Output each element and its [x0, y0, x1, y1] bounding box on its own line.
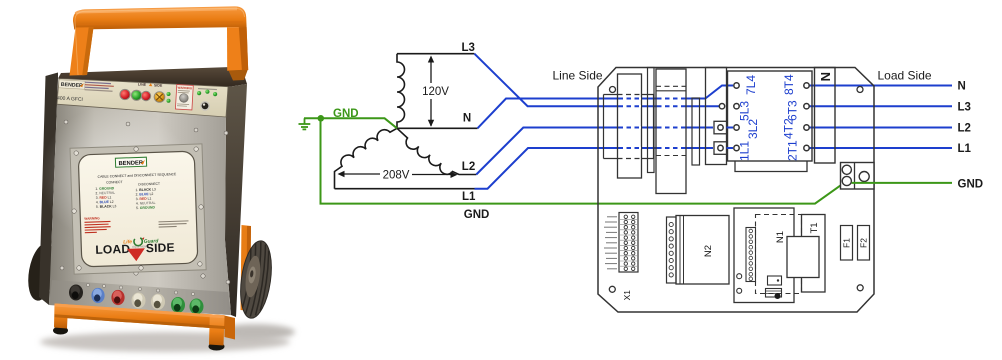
front lower dark strip [49, 280, 231, 315]
svg-text:N2: N2 [703, 245, 714, 257]
wire GND out right [852, 182, 953, 184]
wire N blue right [809, 85, 952, 87]
terminal 5L3 pre [719, 104, 724, 109]
enclosure outline [598, 68, 874, 313]
CT B inner lines [656, 85, 686, 87]
svg-text:LOAD: LOAD [95, 242, 130, 257]
N1 terminal strip [746, 228, 756, 282]
N1 dashed boundary [756, 215, 802, 294]
svg-text:5. GROUND: 5. GROUND [136, 205, 156, 210]
wire L1 blue right [809, 147, 952, 149]
terminal 8T4 [804, 83, 809, 88]
svg-text:N: N [958, 81, 966, 93]
contactor bottom tab [735, 161, 807, 172]
svg-text:SIDE: SIDE [146, 240, 175, 255]
terminal 2T1 [804, 145, 809, 150]
ground symbol [299, 118, 311, 129]
small green leds center [167, 92, 171, 96]
terminal strip X1 [619, 213, 638, 273]
left wheel [24, 241, 60, 303]
wire GND green left [304, 118, 397, 128]
hand truck right rail [241, 225, 252, 311]
label plate [78, 151, 198, 267]
svg-text:4T2: 4T2 [782, 118, 796, 139]
floor shadow [40, 332, 290, 352]
neutral block N [815, 68, 836, 164]
connector green 1 [171, 297, 185, 313]
handle [70, 6, 249, 80]
svg-text:L1: L1 [958, 143, 972, 155]
svg-text:LINE: LINE [138, 82, 147, 86]
dimension 120V [430, 58, 432, 127]
N1 side holes [737, 274, 742, 279]
svg-text:F2: F2 [859, 238, 869, 248]
N1 sub block B [766, 289, 782, 298]
steel screws top row [60, 120, 230, 284]
button gray [179, 93, 189, 103]
ground lug block [841, 163, 875, 190]
CT B window [656, 69, 686, 194]
wire N blue [478, 86, 734, 129]
wire L3 top black [397, 53, 474, 55]
connector white 2 [151, 294, 165, 310]
warning sticker [175, 85, 193, 110]
svg-text:Line Side: Line Side [553, 68, 603, 82]
hole top-left [610, 87, 616, 93]
svg-text:L3: L3 [462, 42, 475, 54]
svg-text:120V: 120V [422, 86, 449, 98]
coil W2 right diagonal [397, 128, 476, 174]
hole bottom-right [857, 285, 863, 291]
box left side [39, 73, 58, 306]
svg-text:T1: T1 [809, 222, 820, 233]
wire L3 blue [474, 54, 719, 106]
svg-text:L2: L2 [958, 123, 971, 135]
right leds [198, 88, 217, 90]
hole top-right [857, 87, 863, 93]
box front steel [49, 104, 231, 315]
CT A window [618, 74, 642, 178]
svg-text:N1: N1 [775, 231, 786, 243]
svg-text:WARNING: WARNING [84, 216, 100, 221]
svg-text:L3: L3 [958, 102, 971, 114]
svg-text:X1: X1 [622, 290, 632, 301]
terminal 6T3 [804, 104, 809, 109]
svg-text:BENDER: BENDER [118, 160, 143, 167]
terminal 5L3 [734, 104, 739, 109]
toggle switch [200, 101, 210, 111]
light red 1 [119, 89, 130, 100]
fuse F1 [841, 226, 853, 261]
contactor K1 [728, 71, 813, 161]
panel bender sticker [59, 80, 85, 89]
relay N2 body [676, 216, 729, 285]
connector black [69, 285, 83, 301]
svg-text:6T3: 6T3 [786, 100, 800, 121]
light green [131, 90, 142, 101]
wire L2 blue [476, 128, 713, 175]
label plate frame [70, 144, 206, 274]
svg-text:208V: 208V [383, 169, 410, 181]
svg-text:WARNING: WARNING [178, 86, 193, 91]
box top face [58, 67, 247, 87]
relay N2 terminal strip [667, 217, 677, 283]
terminal box 1L1 [714, 142, 727, 155]
right wheel [236, 239, 276, 320]
svg-text:BENDER: BENDER [61, 82, 83, 89]
rect small left of C [692, 98, 700, 165]
N1 sub block A [768, 276, 782, 285]
connector white 1 [132, 293, 146, 309]
svg-text:GND: GND [958, 178, 984, 190]
terminal 1L1 [734, 145, 739, 150]
node center wye [397, 127, 478, 129]
svg-text:L2: L2 [462, 161, 475, 173]
dimension 208V [344, 173, 451, 176]
node GND junction [318, 115, 325, 122]
svg-text:5. BLACK L3: 5. BLACK L3 [96, 204, 117, 209]
orange base [53, 327, 68, 335]
svg-text:DISCONNECT: DISCONNECT [138, 182, 160, 187]
transformer T1 [802, 215, 826, 293]
wire L3 blue right [809, 105, 952, 107]
svg-text:5L3: 5L3 [738, 101, 752, 121]
wire L2 blue right [809, 127, 952, 129]
terminal 4T2 [804, 125, 809, 130]
fuse F2 [858, 226, 870, 261]
relay N1 body [734, 208, 794, 303]
warning text red [84, 216, 111, 233]
svg-text:CONNECT: CONNECT [106, 180, 122, 185]
hole bottom-left [609, 286, 615, 292]
svg-text:3L2: 3L2 [746, 119, 760, 139]
panel small text lines [85, 82, 114, 92]
terminal 3L2 [734, 125, 739, 130]
connector screws row [86, 283, 194, 295]
X1 tiny wire tags [604, 217, 617, 269]
light red 2 [141, 91, 151, 101]
svg-text:GND: GND [464, 209, 490, 221]
wire L1 bottom black [335, 188, 475, 190]
terminal 7L4 [734, 83, 739, 88]
terminal box 3L2 [714, 121, 727, 134]
svg-text:N: N [463, 112, 471, 124]
svg-text:2T1: 2T1 [786, 140, 800, 161]
coil W3 vertical [397, 54, 405, 129]
light amber [154, 91, 166, 103]
connector blue [91, 288, 104, 303]
svg-text:8T4: 8T4 [782, 74, 796, 95]
svg-text:Load Side: Load Side [878, 69, 932, 83]
rect C [706, 68, 727, 165]
steel shine [40, 105, 190, 245]
coil W1 left diagonal [335, 128, 398, 188]
svg-text:L1: L1 [462, 191, 476, 203]
dashed blue segments overlay [619, 99, 686, 149]
line side mini label [138, 82, 163, 87]
wire L1 blue [475, 148, 714, 189]
connector green 2 [190, 299, 204, 315]
svg-text:1L1: 1L1 [738, 141, 752, 161]
box right side [225, 84, 247, 317]
svg-text:N: N [818, 72, 833, 81]
wire GND bottom run [321, 118, 845, 203]
control panel [57, 79, 228, 118]
svg-text:7L4: 7L4 [744, 75, 758, 95]
CT band left [604, 95, 654, 159]
bender logo plate [115, 157, 146, 167]
svg-text:SIDE: SIDE [154, 83, 163, 87]
connector red [111, 290, 124, 305]
bar between CTs [648, 68, 655, 173]
lifeguard logo [123, 237, 160, 249]
svg-text:F1: F1 [842, 238, 852, 248]
svg-text:GND: GND [333, 108, 359, 120]
gray note [158, 220, 188, 227]
